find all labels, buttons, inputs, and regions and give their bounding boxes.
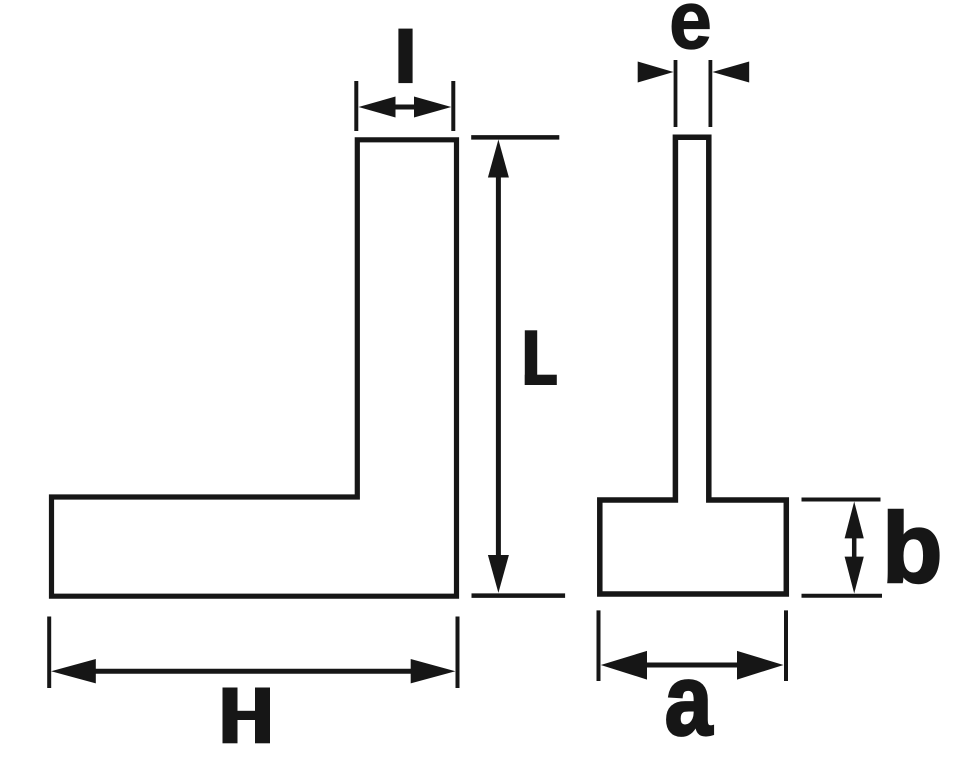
label L [525,330,557,385]
dimension l: left extension tick [354,81,358,131]
dimension a: right extension tick [784,610,788,681]
dimension a: left arrowhead [601,651,647,680]
label a [665,644,714,756]
label b [882,492,942,603]
dimension a: right arrowhead [737,651,784,680]
dimension a: arrow line [640,663,745,668]
dimension b: vertical arrow line [852,536,857,559]
dimension L: top extension line [471,135,559,140]
label e [669,0,712,66]
label H [223,688,271,744]
dimension L: bottom arrowhead [488,555,509,593]
dimension H: left extension tick [47,617,51,689]
side view T-shape outline [600,137,787,594]
dimension e: right extension tick [709,60,713,127]
dimension b: top extension line [802,498,881,502]
dimension H: arrow line [90,669,417,674]
svg-text:b: b [882,492,942,603]
dimension l: right extension tick [451,81,455,131]
dimension e: left extension tick [674,60,678,127]
dimension l: right arrowhead [414,97,451,118]
svg-text:a: a [665,644,714,756]
dimension b: bottom extension line [802,594,883,598]
dimension H: right arrowhead [411,659,456,683]
dimension l: arrow line [394,105,416,110]
dimension a: left extension tick [597,610,601,681]
dimension b: top arrowhead [845,502,864,539]
dimension H: left arrowhead [51,659,96,683]
svg-text:e: e [669,0,712,66]
dimension e: right arrowhead [712,62,749,83]
dimension H: right extension tick [456,617,460,689]
dimension b: bottom arrowhead [845,557,864,594]
front view L-shape outline [52,140,457,596]
dimension L: vertical arrow line [496,165,501,567]
label l [398,29,412,84]
dimension l: left arrowhead [359,97,396,118]
dimension e: left arrowhead [638,62,674,83]
dimension L: top arrowhead [488,140,509,178]
dimension L: bottom extension line [472,593,566,598]
